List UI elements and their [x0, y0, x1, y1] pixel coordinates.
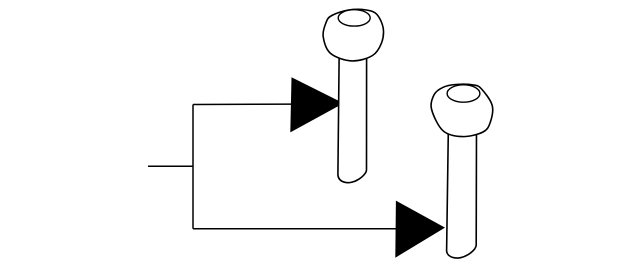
stud 2 shaft (cylinder with domed bottom)	[447, 125, 477, 258]
arrowhead 1 (points at stud 1 shaft)	[290, 77, 343, 132]
arrowhead 2 (points at stud 2 shaft)	[395, 201, 445, 258]
leader stub line (left)	[148, 165, 193, 167]
leader vertical line	[192, 105, 194, 229]
leader top horizontal line to arrow 1	[193, 103, 293, 105]
stud 2 ball	[431, 84, 493, 136]
stud 2 ball top recess ellipse	[447, 85, 480, 102]
stud 1 shaft (cylinder with domed bottom)	[338, 50, 367, 183]
stud 1 ball	[323, 9, 383, 61]
stud 1 ball top recess ellipse	[338, 10, 370, 26]
leader bottom horizontal line to arrow 2	[193, 228, 398, 230]
